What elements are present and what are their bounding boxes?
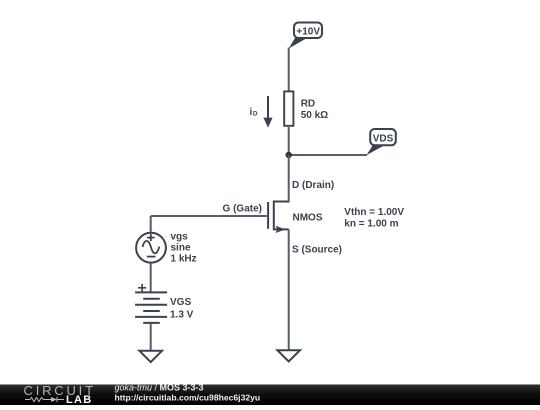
svg-text:sine: sine (171, 243, 191, 254)
wire resistor to node (288, 127, 290, 155)
svg-text:D (Drain): D (Drain) (292, 180, 334, 191)
voltage source V1 vgs (136, 232, 197, 265)
footer bar (0, 383, 540, 406)
transistor M1 NMOS (268, 202, 289, 234)
wire node to drain (288, 155, 290, 203)
svg-text:VGS: VGS (170, 297, 191, 308)
battery VGS (135, 284, 194, 323)
svg-text:D: D (253, 111, 258, 118)
svg-text:+10V: +10V (296, 27, 320, 38)
wire node to VDS flag (289, 154, 367, 156)
svg-text:NMOS: NMOS (293, 213, 323, 224)
node junction dot (286, 152, 292, 158)
svg-text:1 kHz: 1 kHz (171, 254, 197, 265)
svg-text:kn = 1.00 m: kn = 1.00 m (344, 218, 398, 229)
svg-text:S (Source): S (Source) (292, 244, 342, 255)
wire battery to ground (150, 323, 152, 350)
source wire to ground (with arrow) (288, 229, 290, 350)
ground (center) (277, 350, 300, 361)
logo zigzag + diode (25, 397, 64, 402)
wire from +10V flag to resistor (288, 48, 290, 92)
svg-text:50 kΩ: 50 kΩ (301, 110, 328, 121)
svg-text:Vthn = 1.00V: Vthn = 1.00V (344, 207, 404, 218)
wire gate down to source V1 (150, 216, 152, 232)
svg-text:goka-tmu / MOS 3-3-3: goka-tmu / MOS 3-3-3 (115, 383, 204, 393)
gate wire (151, 215, 268, 217)
resistor RD (284, 91, 328, 125)
svg-text:1.3 V: 1.3 V (170, 310, 194, 321)
net flag +10V (289, 23, 322, 49)
current label iD (250, 96, 273, 128)
svg-text:http://circuitlab.com/cu98hec6: http://circuitlab.com/cu98hec6j32yu (115, 392, 261, 402)
svg-text:LAB: LAB (66, 394, 93, 405)
wire V1 to battery (150, 264, 152, 293)
net flag VDS (366, 129, 396, 155)
svg-text:VDS: VDS (373, 134, 394, 145)
svg-text:G (Gate): G (Gate) (223, 204, 262, 215)
svg-text:RD: RD (301, 98, 315, 109)
svg-text:vgs: vgs (171, 232, 189, 243)
ground (left) (139, 351, 162, 362)
